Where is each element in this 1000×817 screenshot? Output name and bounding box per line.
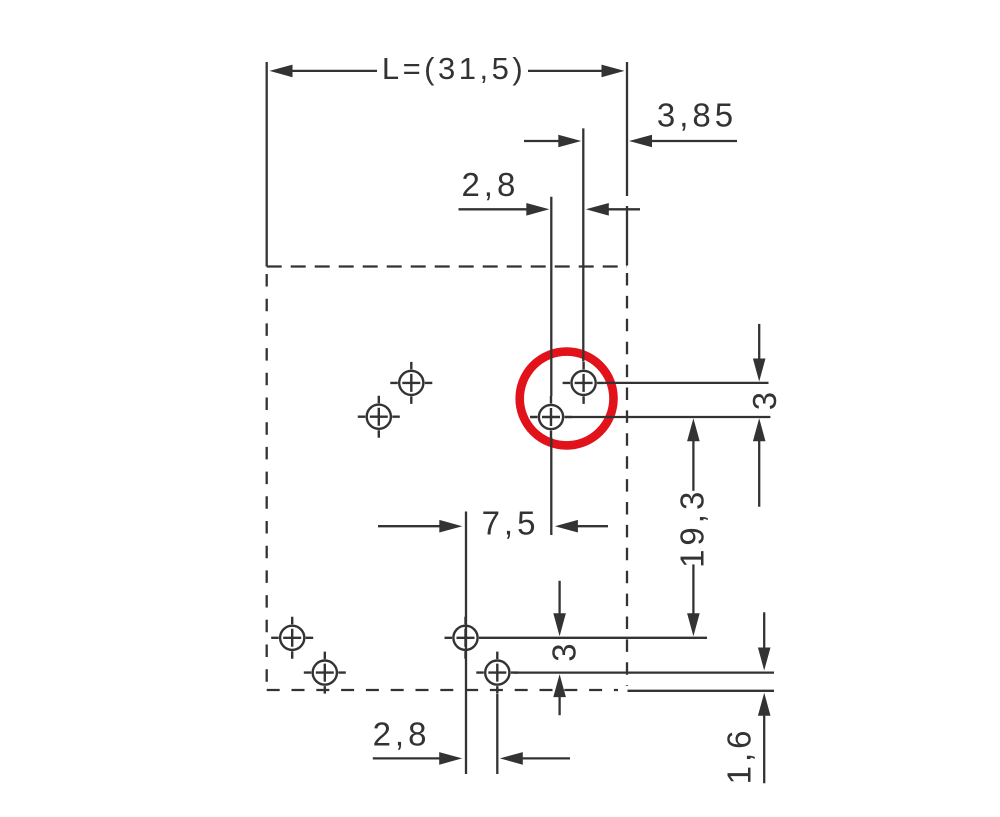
leader line from pad B2: [572, 416, 770, 418]
dimension 3 bottom upper arrow: [553, 581, 566, 637]
extension line right x=627: [626, 62, 628, 196]
svg-text:19,3: 19,3: [674, 488, 711, 568]
dashed outline right edge: [626, 273, 628, 686]
leader line from pad D1: [487, 637, 708, 639]
extension line x=497.3: [496, 694, 498, 774]
dashed outline top edge: [267, 265, 627, 267]
pad B1: [563, 362, 605, 404]
leader line from pad B1: [605, 382, 769, 384]
dimension 3,85 right arrow: [629, 135, 737, 148]
extension segment x=627 above outline corner: [626, 206, 628, 266]
pad C1: [271, 617, 313, 659]
extension line x=551.3 lower part: [550, 438, 552, 535]
leader line from pad D2 / pcb top edge: [514, 671, 774, 673]
pad D2: [476, 652, 518, 694]
dimension 19,3 upper arrow: [687, 418, 700, 491]
dimension 3 bottom lower arrow: [553, 674, 566, 715]
extension line x=466: [465, 512, 467, 775]
svg-text:3,85: 3,85: [657, 97, 737, 134]
extension line x=583.3: [582, 128, 584, 361]
pad C2: [304, 652, 346, 694]
dimension 2,8 top right arrow: [586, 203, 640, 216]
svg-text:3: 3: [746, 388, 783, 410]
dimension 3 right lower arrow: [753, 418, 766, 507]
dimension 7,5 right arrow: [555, 520, 608, 533]
pad D1: [445, 617, 487, 659]
extension line x=551.3 upper part: [550, 197, 552, 396]
svg-text:L=(31,5): L=(31,5): [382, 51, 526, 86]
svg-text:1,6: 1,6: [721, 726, 758, 784]
dimension 2,8 top left arrow: [459, 203, 550, 216]
dimension L=(31,5) left arrow: [270, 65, 378, 78]
pad A1: [390, 362, 432, 404]
red highlight circle: [520, 352, 614, 446]
svg-text:7,5: 7,5: [482, 505, 540, 542]
dashed outline bottom edge: [267, 689, 618, 691]
dimension 7,5 left arrow: [378, 520, 462, 533]
dimension 2,8 bottom right arrow: [500, 752, 570, 765]
extension line left x=267: [266, 62, 268, 267]
dimension 2,8 bottom left arrow: [373, 752, 462, 765]
pad A2: [358, 396, 400, 438]
pad B2: [530, 396, 572, 438]
dashed outline left edge: [266, 274, 268, 690]
dimension L=(31,5) right arrow: [528, 65, 625, 78]
dimension 1,6 lower arrow: [758, 693, 771, 784]
dimension 1,6 upper arrow: [758, 612, 771, 670]
svg-text:3: 3: [545, 639, 582, 661]
svg-text:2,8: 2,8: [373, 716, 431, 753]
dimension 3 right upper arrow: [753, 324, 766, 382]
dimension 3,85 left arrow: [524, 135, 581, 148]
svg-text:2,8: 2,8: [461, 166, 519, 203]
pcb bottom edge: [628, 690, 775, 692]
dimension 19,3 lower arrow: [687, 564, 700, 636]
